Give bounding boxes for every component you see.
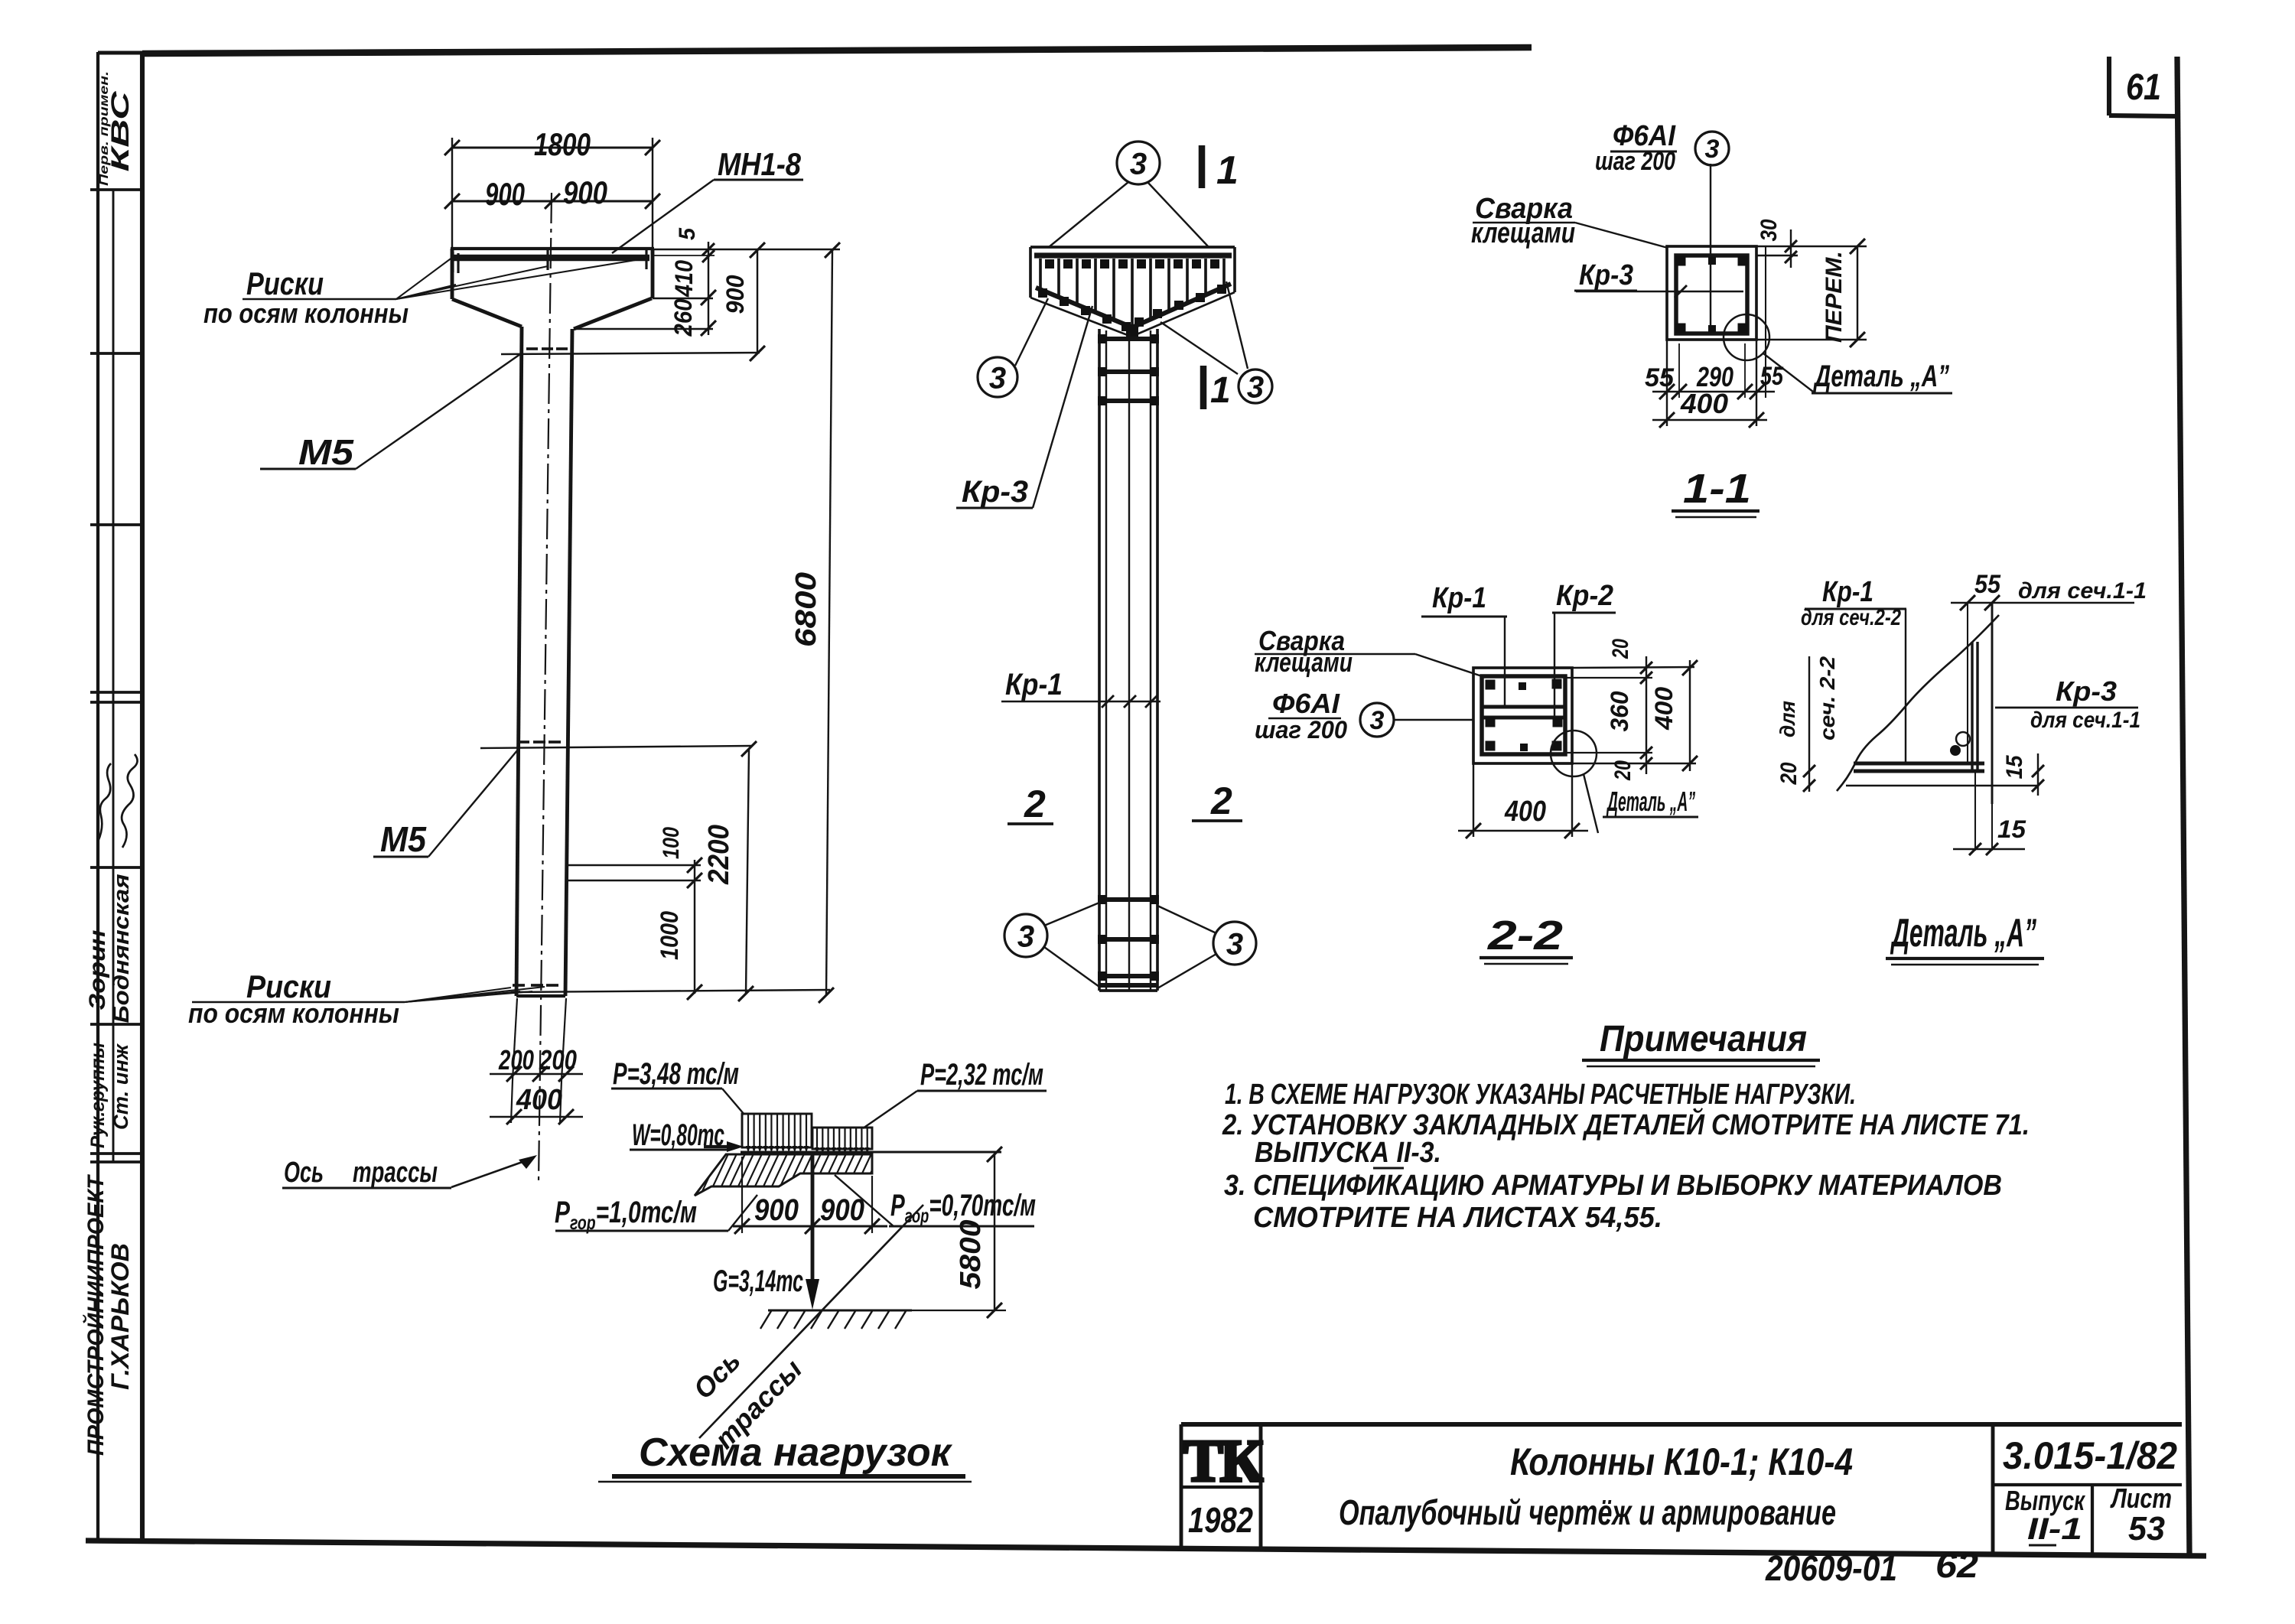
svg-text:5: 5 <box>675 227 700 240</box>
svg-text:55: 55 <box>1760 362 1784 391</box>
svg-text:P=2,32 тс/м: P=2,32 тс/м <box>920 1058 1043 1092</box>
svg-text:900: 900 <box>563 174 607 210</box>
svg-text:клещами: клещами <box>1255 646 1353 678</box>
svg-text:Деталь „А”: Деталь „А” <box>1813 360 1949 393</box>
svg-text:1982: 1982 <box>1188 1500 1253 1540</box>
svg-text:3.015-1/82: 3.015-1/82 <box>2003 1434 2177 1477</box>
svg-text:Кр-3: Кр-3 <box>2056 675 2117 707</box>
svg-text:G=3,14тс: G=3,14тс <box>713 1264 803 1298</box>
svg-text:Кр-3: Кр-3 <box>962 475 1028 509</box>
svg-text:Лист: Лист <box>2110 1482 2172 1514</box>
svg-text:55: 55 <box>1974 570 2001 599</box>
svg-text:200: 200 <box>498 1044 534 1076</box>
svg-text:Ось: Ось <box>284 1157 324 1189</box>
svg-text:сеч. 2-2: сеч. 2-2 <box>1815 656 1839 740</box>
svg-text:3: 3 <box>1247 370 1264 404</box>
svg-text:3: 3 <box>1017 919 1034 953</box>
svg-text:15: 15 <box>2002 754 2027 779</box>
svg-text:100: 100 <box>659 827 684 859</box>
svg-text:Деталь „А”: Деталь „А” <box>1890 911 2036 955</box>
svg-text:2: 2 <box>1210 779 1232 822</box>
svg-text:20: 20 <box>1776 762 1802 785</box>
svg-text:ПРОМСТРОЙНИИПРОЕКТ: ПРОМСТРОЙНИИПРОЕКТ <box>82 1173 109 1456</box>
svg-text:Риски: Риски <box>246 265 324 301</box>
svg-text:СМОТРИТЕ НА ЛИСТАХ 54,55.: СМОТРИТЕ НА ЛИСТАХ 54,55. <box>1253 1202 1662 1234</box>
svg-text:Схема нагрузок: Схема нагрузок <box>639 1430 953 1475</box>
svg-text:Деталь „А”: Деталь „А” <box>1606 786 1695 817</box>
svg-text:для сеч.1-1: для сеч.1-1 <box>2018 578 2147 604</box>
svg-text:2200: 2200 <box>703 825 735 885</box>
svg-text:МН1-8: МН1-8 <box>718 146 802 182</box>
svg-text:1: 1 <box>1216 148 1239 193</box>
svg-text:P=3,48 тс/м: P=3,48 тс/м <box>613 1057 739 1091</box>
svg-text:1. В СХЕМЕ НАГРУЗОК УКАЗАНЫ РА: 1. В СХЕМЕ НАГРУЗОК УКАЗАНЫ РАСЧЕТНЫЕ НА… <box>1225 1079 1856 1111</box>
svg-text:5800: 5800 <box>955 1220 987 1290</box>
svg-text:410: 410 <box>670 260 698 298</box>
svg-text:Кр-1: Кр-1 <box>1822 576 1873 608</box>
svg-text:ПЕРЕМ.: ПЕРЕМ. <box>1821 251 1847 343</box>
svg-text:3: 3 <box>1370 706 1385 735</box>
svg-text:400: 400 <box>1504 796 1546 828</box>
svg-text:Ст. инж: Ст. инж <box>109 1043 132 1130</box>
svg-text:для: для <box>1776 701 1799 737</box>
svg-text:1: 1 <box>1210 370 1231 411</box>
svg-text:II-1: II-1 <box>2027 1512 2082 1546</box>
svg-text:КВС: КВС <box>106 90 134 171</box>
svg-text:30: 30 <box>1756 219 1782 241</box>
svg-text:3: 3 <box>989 361 1006 395</box>
svg-text:ВЫПУСКА II-3.: ВЫПУСКА II-3. <box>1255 1137 1441 1169</box>
svg-text:3: 3 <box>1705 135 1720 164</box>
svg-text:М5: М5 <box>380 819 427 859</box>
svg-text:900: 900 <box>485 176 525 212</box>
svg-text:Боднянская: Боднянская <box>109 874 134 1024</box>
svg-text:400: 400 <box>1650 687 1678 731</box>
svg-text:55: 55 <box>1645 363 1675 392</box>
svg-text:400: 400 <box>1680 388 1728 419</box>
svg-text:Кр-3: Кр-3 <box>1579 259 1633 291</box>
svg-text:3: 3 <box>1130 147 1147 181</box>
svg-text:61: 61 <box>2126 67 2161 108</box>
svg-text:260: 260 <box>669 298 697 337</box>
svg-text:Опалубочный чертёж и армирова: Опалубочный чертёж и армирование <box>1339 1492 1836 1532</box>
svg-text:2: 2 <box>1024 783 1046 825</box>
svg-text:1000: 1000 <box>656 911 683 960</box>
svg-text:3. СПЕЦИФИКАЦИЮ АРМАТУРЫ И ВЫБ: 3. СПЕЦИФИКАЦИЮ АРМАТУРЫ И ВЫБОРКУ МАТЕР… <box>1224 1170 2002 1202</box>
svg-text:200: 200 <box>539 1044 577 1076</box>
svg-text:53: 53 <box>2128 1510 2165 1548</box>
svg-text:Зорин: Зорин <box>85 930 110 1011</box>
svg-text:20: 20 <box>1610 760 1636 781</box>
svg-text:15: 15 <box>1997 815 2026 843</box>
svg-text:900: 900 <box>721 275 749 314</box>
svg-text:2-2: 2-2 <box>1487 913 1563 958</box>
svg-text:Ф6АI: Ф6АI <box>1272 688 1340 719</box>
svg-text:Рук.группы: Рук.группы <box>87 1043 109 1148</box>
svg-text:1-1: 1-1 <box>1683 466 1751 512</box>
svg-text:шаг 200: шаг 200 <box>1595 147 1675 176</box>
svg-text:трассы: трассы <box>353 1157 438 1189</box>
svg-text:Выпуск: Выпуск <box>2005 1485 2085 1516</box>
svg-text:6800: 6800 <box>790 572 822 647</box>
svg-text:Кр-1: Кр-1 <box>1005 668 1063 701</box>
svg-text:900: 900 <box>754 1193 799 1227</box>
svg-text:шаг 200: шаг 200 <box>1255 716 1347 744</box>
svg-text:для сеч.2-2: для сеч.2-2 <box>1801 605 1901 630</box>
svg-text:20609-01: 20609-01 <box>1765 1548 1897 1588</box>
svg-text:3: 3 <box>1226 927 1243 961</box>
svg-text:360: 360 <box>1606 691 1633 731</box>
svg-text:М5: М5 <box>298 432 355 472</box>
svg-text:Г.ХАРЬКОВ: Г.ХАРЬКОВ <box>106 1243 134 1390</box>
svg-text:для сеч.1-1: для сеч.1-1 <box>2030 708 2140 733</box>
svg-text:900: 900 <box>820 1193 864 1227</box>
svg-text:по осям колонны: по осям колонны <box>203 298 409 329</box>
svg-text:Кр-2: Кр-2 <box>1556 580 1613 612</box>
svg-text:20: 20 <box>1608 639 1633 659</box>
svg-text:Кр-1: Кр-1 <box>1432 582 1486 614</box>
svg-text:ТК: ТК <box>1183 1427 1263 1494</box>
svg-text:1800: 1800 <box>534 126 591 162</box>
svg-text:Примечания: Примечания <box>1600 1019 1807 1059</box>
svg-text:62: 62 <box>1935 1545 1978 1585</box>
svg-text:Колонны К10-1; К10-4: Колонны К10-1; К10-4 <box>1510 1440 1853 1483</box>
svg-text:400: 400 <box>516 1084 562 1116</box>
